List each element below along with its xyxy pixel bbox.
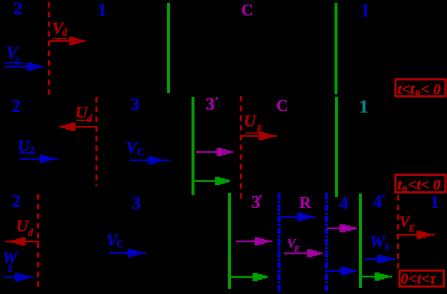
svg-text:C: C: [276, 96, 288, 115]
wave arrow green shaft (row 2): [194, 180, 230, 182]
wave arrow V_d shaft (row 1): [49, 40, 85, 42]
svg-text:C: C: [117, 239, 124, 250]
svg-text:R: R: [299, 193, 312, 212]
boundary line: green, row 1 left: [167, 3, 170, 93]
svg-text:2: 2: [13, 0, 22, 19]
wave arrow V_E head (row 3): [417, 231, 431, 239]
svg-text:1: 1: [359, 96, 368, 116]
svg-text:< 0: < 0: [421, 82, 441, 98]
underline of U_2 (row 2): [19, 152, 36, 153]
svg-text:4: 4: [339, 193, 348, 213]
svg-text:1: 1: [98, 0, 107, 20]
time condition box (row 2): [396, 175, 446, 193]
svg-text:’: ’: [258, 191, 262, 205]
wave arrow U_d shaft, points left (row 3): [6, 241, 40, 243]
svg-text:1: 1: [385, 243, 390, 254]
wave arrow U_2 shaft (row 2): [20, 158, 58, 160]
wave arrow green 1 head (row 3): [253, 273, 267, 281]
wave arrow magenta 2 shaft (row 3): [284, 252, 323, 254]
svg-text:3: 3: [206, 94, 215, 114]
svg-text:3: 3: [132, 193, 141, 213]
svg-text:1: 1: [361, 1, 370, 21]
wave arrow V_E shaft (row 3): [397, 234, 435, 236]
boundary line: green, row 3 left: [228, 193, 231, 289]
wave arrow magenta 1 head (row 3): [255, 237, 269, 245]
wave arrow U_E shaft (row 2): [241, 135, 277, 137]
svg-text:2: 2: [12, 96, 21, 116]
wave arrow V_C head (row 2): [148, 156, 161, 164]
wave arrow green 2 head (row 3): [375, 273, 389, 281]
svg-text:E: E: [293, 245, 299, 254]
svg-text:0: 0: [403, 185, 408, 195]
svg-text:0: 0: [416, 90, 421, 100]
wave arrow V_C head (row 3): [128, 249, 142, 257]
svg-text:’: ’: [382, 191, 386, 205]
boundary line: green, row 2 right: [335, 97, 338, 197]
wavefront line: red dashed, row 2 middle: [240, 96, 242, 199]
boundary line: green, row 2 left: [192, 97, 195, 195]
wave arrow U_d head, points left (row 2): [62, 123, 76, 131]
wave arrow V_C shaft (row 3): [109, 252, 146, 254]
wave arrow blue 2 shaft (row 3): [326, 270, 356, 272]
wave arrow V_2 shaft (row 1): [4, 66, 44, 68]
wave arrow magenta shaft (row 2): [196, 151, 233, 153]
underline of V_d (row 1): [53, 38, 67, 40]
wave arrow V_C shaft (row 2): [129, 159, 170, 161]
svg-text:<t< 0: <t< 0: [408, 178, 441, 194]
wave arrow W_2 shaft (row 3): [3, 276, 33, 278]
boundary line: green, row 3 right: [359, 194, 362, 289]
svg-text:2: 2: [14, 56, 19, 67]
svg-text:t<t: t<t: [398, 82, 416, 98]
wave arrow green 1 shaft (row 3): [231, 276, 268, 278]
underline of U_d (row 2): [77, 120, 93, 121]
svg-text:2: 2: [7, 264, 12, 275]
wave arrow blue in R region shaft (row 3): [281, 216, 316, 218]
wavefront line: red dashed, row 3 left: [37, 194, 39, 290]
wave arrow magenta 2 head (row 3): [307, 249, 321, 257]
svg-text:E: E: [408, 225, 415, 235]
wave arrow U_d shaft, points left (row 2): [59, 126, 97, 128]
underline of V_2 (row 1): [4, 62, 23, 63]
wave arrow magenta head (row 2): [217, 148, 231, 156]
wave arrow U_d head, points left (row 3): [12, 237, 26, 245]
svg-text:U: U: [244, 111, 257, 130]
svg-text:3: 3: [131, 95, 140, 115]
wave arrow U_2 head (row 2): [40, 155, 53, 163]
wave arrow U_E head (row 2): [259, 132, 273, 140]
wavefront line: red dashed, row 3 right: [397, 195, 399, 270]
wave arrow magenta 1 shaft (row 3): [236, 240, 272, 242]
wave arrow blue 2 head (row 3): [341, 267, 355, 275]
time condition box (row 3): [400, 271, 444, 287]
svg-text:0<t<τ: 0<t<τ: [401, 272, 438, 288]
wave arrow W_2 head (row 3): [15, 273, 29, 281]
wavefront line: red dashed, row 1: [48, 2, 50, 97]
svg-text:C: C: [241, 1, 253, 20]
wavefront line: red dashed, row 2 left: [95, 97, 97, 186]
boundary line: green, row 1 right: [335, 3, 338, 94]
wave arrow blue in R region head (row 3): [297, 213, 311, 221]
wavefront line: blue dash-dot, row 3 right: [325, 193, 328, 291]
svg-text:C: C: [137, 148, 144, 159]
svg-text:2: 2: [12, 191, 21, 211]
wave arrow W_1 head (row 3): [377, 255, 391, 263]
wave arrow magenta 3 shaft (row 3): [327, 227, 357, 229]
svg-text:’: ’: [215, 94, 219, 108]
wave arrow green 2 shaft (row 3): [360, 276, 392, 278]
time condition box (row 1): [396, 79, 446, 96]
wavefront line: blue dash-dot, row 3 left: [278, 193, 281, 292]
wave arrow green head (row 2): [215, 177, 229, 185]
underline of U_E (row 2): [245, 132, 262, 133]
svg-text:2: 2: [29, 146, 34, 157]
wave arrow W_1 shaft (row 3): [364, 258, 395, 260]
wave arrow magenta 3 head (row 3): [340, 224, 356, 232]
wave arrow V_2 head (row 1): [27, 63, 41, 71]
svg-text:1: 1: [430, 192, 439, 212]
wave arrow V_d head (row 1): [69, 37, 83, 45]
